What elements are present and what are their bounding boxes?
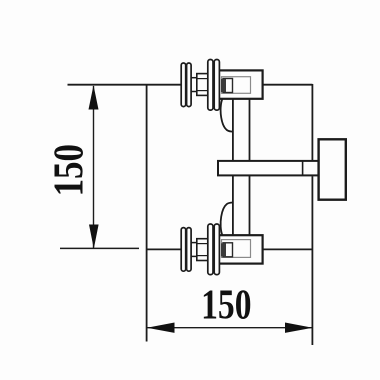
svg-text:150: 150 [46,144,92,196]
svg-text:150: 150 [201,282,251,328]
